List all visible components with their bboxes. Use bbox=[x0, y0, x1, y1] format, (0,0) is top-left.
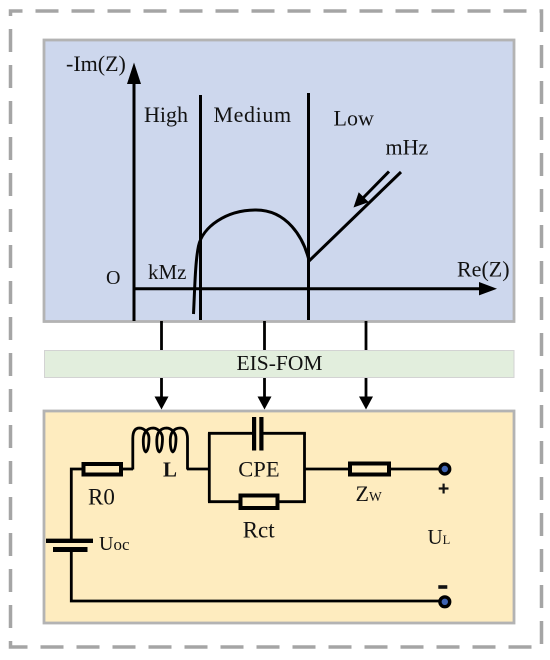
arrow to circuit 3 bbox=[359, 378, 373, 410]
svg-text:O: O bbox=[106, 267, 120, 289]
equivalent circuit panel bbox=[44, 411, 514, 623]
Warburg 45-degree line bbox=[309, 172, 401, 261]
semicircle arc bbox=[194, 210, 310, 314]
svg-text:L: L bbox=[163, 458, 177, 482]
medium/low divider bbox=[307, 93, 310, 320]
svg-text:Medium: Medium bbox=[214, 102, 292, 127]
battery Uoc bbox=[46, 541, 93, 550]
arrow to circuit 1 bbox=[155, 378, 169, 410]
svg-text:EIS-FOM: EIS-FOM bbox=[236, 351, 322, 375]
svg-text:R0: R0 bbox=[88, 485, 115, 510]
svg-text:-Im(Z): -Im(Z) bbox=[66, 51, 126, 76]
svg-text:Re(Z): Re(Z) bbox=[457, 257, 510, 282]
svg-text:High: High bbox=[144, 102, 188, 127]
connector line 2 bbox=[263, 321, 266, 351]
resistor Rct bbox=[241, 496, 278, 509]
connector line 3 bbox=[365, 321, 368, 351]
wire inductor to CPE block bbox=[187, 468, 210, 471]
svg-text:mHz: mHz bbox=[386, 135, 429, 160]
wire battery top to R0 bbox=[71, 469, 83, 539]
svg-text:Low: Low bbox=[334, 106, 374, 131]
high/medium divider bbox=[199, 95, 202, 320]
inductor L bbox=[133, 428, 188, 470]
wire battery bottom to ground rail bbox=[71, 552, 439, 601]
wire CPE block to Zw bbox=[305, 468, 351, 471]
y-axis -Im(Z) bbox=[66, 51, 141, 321]
svg-text:Uoc: Uoc bbox=[99, 533, 130, 555]
label + bbox=[439, 484, 449, 494]
connector line 1 bbox=[160, 321, 163, 351]
CPE parallel block frame bbox=[208, 433, 306, 501]
resistor R0 bbox=[84, 464, 122, 475]
arrow to circuit 2 bbox=[258, 378, 272, 410]
terminal + bbox=[440, 464, 450, 474]
capacitor CPE plates bbox=[254, 417, 261, 451]
resistor Zw bbox=[350, 464, 389, 475]
wire Zw to + terminal bbox=[389, 468, 439, 471]
frequency direction arrow bbox=[354, 172, 390, 208]
wire R0 to inductor bbox=[123, 468, 133, 471]
label minus bbox=[438, 585, 447, 589]
Nyquist plot panel bbox=[44, 40, 514, 322]
svg-text:kMz: kMz bbox=[148, 260, 187, 284]
svg-text:Rct: Rct bbox=[243, 518, 276, 543]
svg-text:CPE: CPE bbox=[238, 457, 279, 482]
terminal - bbox=[440, 597, 450, 607]
x-axis Re(Z) bbox=[134, 257, 510, 296]
EIS-FOM band bbox=[45, 351, 515, 378]
